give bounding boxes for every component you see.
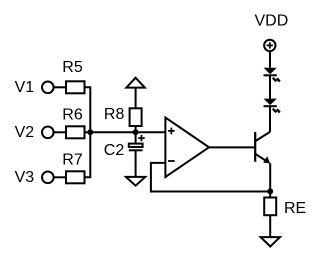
wire R6 to bus	[85, 131, 91, 133]
svg-text:RE: RE	[284, 200, 306, 217]
capacitor C2 plus sign	[138, 135, 145, 141]
ground below C2	[126, 177, 145, 186]
LED D1 cathode bar	[264, 74, 277, 76]
transistor Q1 emitter arrowhead	[263, 156, 270, 163]
capacitor C2 top plate	[129, 144, 143, 147]
wire RE to ground	[269, 215, 271, 237]
op-amp plus input sign	[168, 128, 175, 135]
op-amp minus input sign	[168, 160, 175, 162]
wire bus to op-amp + input	[90, 131, 165, 133]
capacitor C2 bottom plate	[129, 149, 143, 151]
terminal V2	[42, 127, 54, 139]
svg-text:R8: R8	[104, 106, 125, 123]
wire LED D1 to VDD terminal	[269, 51, 271, 68]
op-amp U1	[165, 118, 209, 178]
node emitter junction	[267, 188, 273, 194]
terminal VDD plus sign	[267, 42, 273, 48]
transistor Q1 collector	[255, 132, 270, 141]
LED D1 emission arrows	[273, 78, 280, 82]
resistor R7	[66, 171, 85, 183]
wire between LEDs	[269, 75, 271, 98]
resistor RE	[264, 198, 276, 216]
LED D1 body	[264, 68, 277, 75]
wire V3 to R7	[54, 176, 66, 178]
svg-text:R7: R7	[62, 151, 83, 168]
node R8/C2 junction	[133, 129, 139, 135]
svg-text:R5: R5	[62, 59, 83, 76]
wire R7 to bus	[85, 132, 91, 177]
svg-text:R6: R6	[62, 107, 83, 124]
wire node to C2	[135, 132, 137, 143]
LED D2 emission arrows	[273, 109, 280, 113]
wire arrow to R8	[135, 88, 137, 109]
node bus junction	[87, 129, 93, 135]
ground below RE	[261, 237, 280, 246]
transistor Q1 base bar	[254, 132, 256, 162]
terminal VDD	[264, 40, 275, 51]
wire V1 to R5	[54, 86, 66, 88]
terminal V3	[42, 172, 54, 184]
transistor Q1 emitter	[255, 154, 268, 162]
terminal V1	[42, 82, 54, 94]
wire node to RE	[269, 191, 271, 197]
wire op-amp output to transistor base	[209, 146, 254, 148]
svg-text:VDD: VDD	[255, 13, 289, 30]
wire R5 to bus	[85, 87, 91, 132]
svg-text:C2: C2	[104, 142, 125, 159]
wire emitter down to node	[269, 163, 271, 191]
resistor R6	[66, 126, 85, 138]
wire C2 to ground	[135, 150, 137, 177]
wire R8 to node	[135, 126, 137, 132]
resistor R8	[130, 108, 142, 126]
resistor R5	[66, 81, 85, 93]
wire collector up to LED chain	[269, 106, 271, 132]
power arrow above R8	[126, 78, 144, 88]
LED D2 cathode bar	[264, 105, 277, 107]
wire V2 to R6	[54, 131, 66, 133]
svg-text:V2: V2	[15, 124, 35, 141]
LED D2 body	[264, 99, 277, 106]
svg-text:V3: V3	[15, 169, 35, 186]
wire feedback from minus input	[151, 163, 270, 192]
svg-text:V1: V1	[15, 79, 35, 96]
